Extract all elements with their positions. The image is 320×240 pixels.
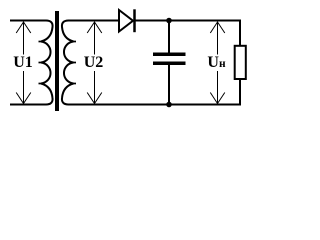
arrow U1 (voltage arrow, double-headed)	[16, 22, 31, 104]
arrow Uн (voltage arrow, double-headed)	[210, 22, 225, 104]
wire: diode to top-right corner	[135, 20, 241, 22]
transformer T1 primary winding	[39, 21, 53, 105]
wire: capacitor top lead	[168, 21, 170, 53]
svg-text:U1: U1	[13, 54, 33, 71]
wire: secondary top to diode	[69, 20, 120, 22]
wire: right branch top	[239, 20, 241, 47]
transformer T1 secondary winding	[62, 21, 76, 105]
wire: primary top	[10, 20, 46, 22]
node: bottom junction	[166, 102, 172, 108]
resistor Rн (load)	[235, 46, 246, 79]
arrow U2 (voltage arrow, double-headed)	[87, 22, 102, 104]
diode VD1	[119, 9, 135, 32]
wire: bottom run	[69, 104, 242, 106]
transformer core	[55, 11, 59, 111]
wire: capacitor bottom lead	[168, 65, 170, 105]
node: top junction	[166, 18, 172, 24]
svg-text:U2: U2	[84, 54, 104, 71]
wire: primary bottom	[10, 104, 46, 106]
wire: right branch bottom	[239, 79, 241, 106]
capacitor C1	[153, 53, 186, 57]
